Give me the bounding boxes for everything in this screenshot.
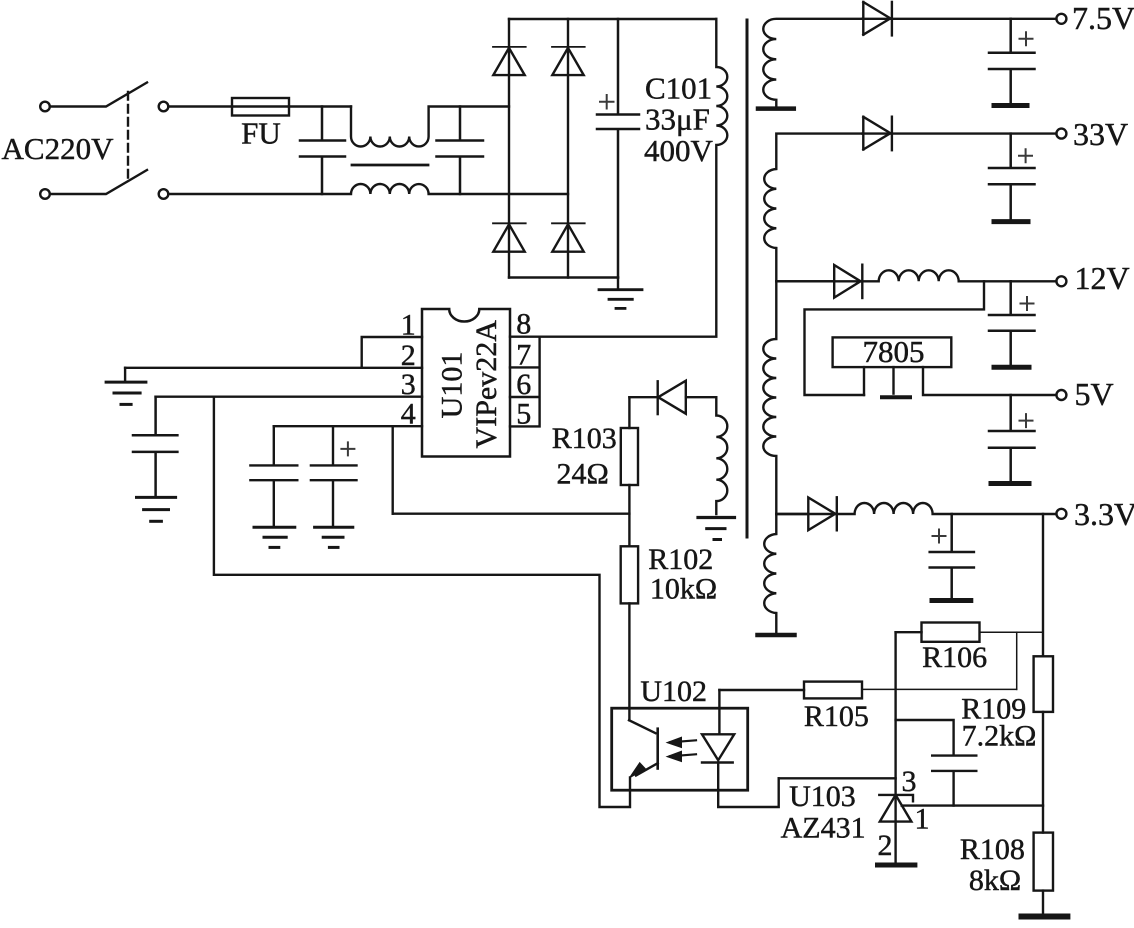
svg-text:VIPev22A: VIPev22A <box>470 320 503 449</box>
svg-text:8: 8 <box>516 308 531 341</box>
svg-text:U103: U103 <box>789 780 856 813</box>
svg-text:7805: 7805 <box>863 334 925 369</box>
svg-text:3: 3 <box>401 368 416 401</box>
svg-text:12V: 12V <box>1075 260 1130 296</box>
svg-text:C101: C101 <box>645 70 712 105</box>
svg-text:400V: 400V <box>644 133 714 168</box>
svg-text:U102: U102 <box>640 675 707 708</box>
svg-text:AC220V: AC220V <box>2 131 115 166</box>
svg-text:R106: R106 <box>922 641 987 674</box>
svg-text:10kΩ: 10kΩ <box>650 573 717 606</box>
svg-text:R103: R103 <box>552 422 617 455</box>
svg-text:7: 7 <box>516 339 531 372</box>
svg-text:7.2kΩ: 7.2kΩ <box>962 720 1037 753</box>
svg-text:24Ω: 24Ω <box>557 457 609 490</box>
svg-text:U101: U101 <box>436 352 469 419</box>
svg-text:2: 2 <box>401 339 416 372</box>
svg-text:2: 2 <box>878 829 893 862</box>
svg-text:AZ431: AZ431 <box>781 812 866 845</box>
svg-text:1: 1 <box>915 802 930 835</box>
svg-text:4: 4 <box>401 398 416 431</box>
svg-text:FU: FU <box>241 116 281 151</box>
svg-text:33μF: 33μF <box>645 101 710 136</box>
svg-text:R105: R105 <box>804 700 869 733</box>
svg-text:7.5V: 7.5V <box>1072 0 1134 36</box>
svg-text:5: 5 <box>516 397 531 430</box>
svg-text:3.3V: 3.3V <box>1074 496 1134 532</box>
svg-text:5V: 5V <box>1075 376 1114 412</box>
svg-text:8kΩ: 8kΩ <box>969 864 1021 897</box>
svg-text:R108: R108 <box>960 833 1025 866</box>
svg-text:3: 3 <box>902 765 917 798</box>
svg-text:6: 6 <box>516 368 531 401</box>
svg-text:1: 1 <box>401 309 416 342</box>
svg-text:R102: R102 <box>648 543 713 576</box>
svg-text:33V: 33V <box>1073 116 1128 152</box>
